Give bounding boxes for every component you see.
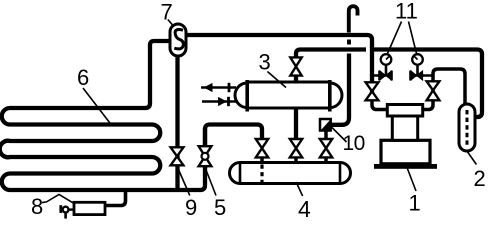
condenser 3 left dome: [235, 83, 245, 108]
condenser 3 right dome: [332, 83, 342, 108]
svg-text:7: 7: [161, 0, 173, 24]
wire: filter-drier 8 stub elbow to bottom bus: [104, 188, 126, 206]
cooling water lower line with right arrow and tick: [202, 100, 238, 103]
wire: safety valve 10 to receiver right valve stem: [324, 130, 328, 141]
svg-text:6: 6: [77, 65, 89, 90]
svg-text:8: 8: [31, 194, 43, 219]
leader line for label 4: [296, 182, 303, 196]
svg-text:10: 10: [343, 132, 365, 155]
charging valve at filter-drier 8: [59, 205, 62, 213]
evaporator coil 6 serpentine with riser to heat exchanger 7: [0, 41, 205, 190]
receiver 4 left seam: [239, 163, 242, 184]
receiver left valve: [256, 139, 268, 157]
leader line for label 10: [332, 128, 347, 143]
svg-text:2: 2: [474, 166, 486, 191]
leader line for label 1: [407, 168, 416, 192]
wire: vent line solid segment with elbow to safety valve 10: [330, 54, 349, 125]
condenser 3 left flange plate: [245, 80, 249, 112]
leader line for label 8 (bent): [42, 194, 74, 203]
right service valve (solid) with end tick: [411, 71, 423, 80]
wire: condenser top valve stem: [294, 72, 298, 83]
wire: riser through valve 5 up and over to receiver left valve: [205, 125, 262, 169]
wire: discharge line from condenser valve corner (left part, gap before suction pipe): [296, 50, 366, 61]
heat exchanger 7 shell: [170, 24, 186, 56]
compressor discharge shut-off valve: [427, 81, 440, 100]
svg-text:3: 3: [259, 50, 271, 75]
valve 9 (expansion valve): [171, 147, 184, 165]
compressor right service stub with gauge stem: [410, 63, 433, 76]
receiver middle valve: [290, 139, 302, 157]
valve 5 (regulating valve with circle): [199, 146, 212, 166]
wire: vent dash between discharge and suction lines: [347, 40, 351, 45]
receiver right valve: [320, 139, 332, 157]
wire: condenser bottom drop to receiver middle valve: [294, 107, 298, 140]
svg-text:5: 5: [214, 195, 226, 220]
safety valve 10 (square with flag): [320, 119, 331, 131]
compressor 1 cylinder head: [387, 105, 422, 117]
svg-text:9: 9: [185, 195, 197, 220]
left service valve (solid) with end ticks: [380, 71, 392, 80]
filter-drier 8 body: [74, 202, 105, 214]
wire: compressor discharge elbow, valve pipe, over to oil separator top: [423, 69, 465, 110]
receiver 4 right seam: [339, 163, 342, 184]
leader line for label 3: [267, 72, 286, 88]
compressor left service stub with gauge stem: [372, 63, 392, 76]
condenser 3 right flange plate: [328, 80, 332, 112]
leader line for label 5: [205, 167, 216, 196]
compressor suction shut-off valve: [366, 82, 379, 100]
wire: receiver left and middle valve stems: [262, 156, 326, 163]
condenser 3 shell: [247, 82, 329, 108]
svg-text:1: 1: [409, 190, 421, 215]
wire: discharge line right part to oil separator right port: [372, 50, 482, 118]
compressor 1 body rectangle: [381, 140, 430, 164]
leader line for label 9: [177, 167, 189, 196]
pressure gauge 11 left: [381, 54, 392, 65]
wire: compressor suction elbow into cylinder head: [372, 98, 390, 110]
compressor 1 base plate: [374, 164, 437, 169]
receiver 4 dip tube (dashed): [260, 165, 263, 183]
oil separator 2 internal tube (dashed): [466, 110, 469, 146]
leader line for label 6: [83, 88, 111, 124]
cooling water upper line with left arrow and tick: [201, 86, 236, 89]
wire: suction top line from heat exchanger 7 to compressor left valve: [183, 35, 372, 100]
vent hook to atmosphere: [349, 6, 358, 32]
leader line for label 7: [168, 20, 173, 25]
condenser top valve: [290, 57, 301, 75]
leader lines for label 11: [388, 22, 417, 54]
heat exchanger 7 internal S coil: [174, 30, 183, 49]
leader line for label 2: [466, 150, 476, 165]
wire: riser from heat exchanger 7 bottom through valve 9 to bottom bus: [175, 54, 179, 190]
oil separator 2 shell: [459, 104, 475, 151]
svg-text:11: 11: [395, 0, 418, 23]
receiver 4 shell: [230, 163, 351, 184]
compressor 1 middle block: [392, 116, 417, 140]
svg-text:4: 4: [298, 196, 311, 221]
pressure gauge 11 right: [412, 54, 423, 65]
